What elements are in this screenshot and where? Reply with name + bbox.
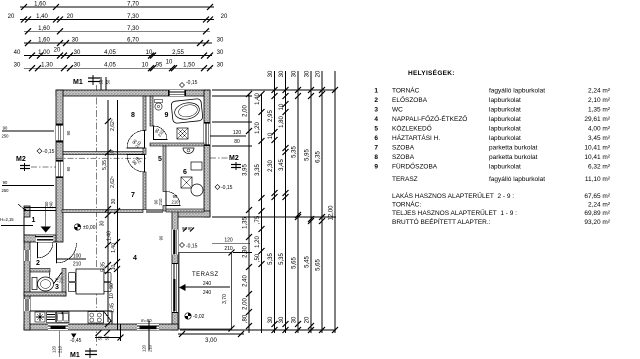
svg-text:lapburkolat: lapburkolat <box>489 126 521 133</box>
50 50 labels bottom <box>95 324 124 341</box>
svg-text:m=90: m=90 <box>141 318 152 323</box>
svg-text:LAKÁS HASZNOS ALAPTERŰLET 2 -: LAKÁS HASZNOS ALAPTERŰLET 2 - 9 : <box>392 191 514 200</box>
door room 9 <box>154 126 168 140</box>
svg-text:HELYISÉGEK:: HELYISÉGEK: <box>408 68 455 77</box>
svg-text:SZOBA: SZOBA <box>392 154 415 161</box>
level marker -0,02 <box>185 313 205 320</box>
front door leaf <box>38 242 54 258</box>
dim chain col 3 <box>268 70 278 333</box>
svg-text:6: 6 <box>183 169 187 176</box>
svg-text:5,95: 5,95 <box>305 149 311 161</box>
porch pillar <box>24 206 30 217</box>
svg-text:1,30: 1,30 <box>41 63 53 69</box>
sliding door 120/210 in right lower wall <box>159 226 195 255</box>
svg-text:7,70: 7,70 <box>127 2 139 8</box>
svg-text:7: 7 <box>131 192 135 199</box>
extension lines right <box>212 89 336 91</box>
entrance triangle porch <box>41 227 52 233</box>
terrace outline <box>179 253 232 330</box>
window left lower wall <box>24 299 30 311</box>
svg-text:10: 10 <box>109 293 115 299</box>
section marker M1 bottom <box>70 348 97 359</box>
kitchen stove <box>88 312 104 324</box>
svg-text:fagyálló lapburkolat: fagyálló lapburkolat <box>489 88 545 95</box>
svg-text:10: 10 <box>146 50 153 56</box>
svg-text:1: 1 <box>374 88 378 95</box>
label 100/240 above porch <box>44 201 54 209</box>
washer room 6 <box>181 177 192 188</box>
window top wall <box>168 90 186 96</box>
top dimension chain row 3 <box>24 26 210 35</box>
dim chain col 8 <box>329 71 339 333</box>
svg-text:20: 20 <box>54 48 61 54</box>
level marker -0,15 terrace <box>180 243 198 250</box>
svg-text:30: 30 <box>279 70 285 77</box>
window label 120/210 below kitchen window <box>52 331 63 357</box>
svg-text:M2: M2 <box>16 156 26 163</box>
svg-text:3,95: 3,95 <box>243 164 249 176</box>
level marker -0,15 top <box>180 80 198 88</box>
svg-text:BRUTTÓ BEÉPÍTETT ALAPTER.:: BRUTTÓ BEÉPÍTETT ALAPTER.: <box>392 217 491 226</box>
svg-text:120: 120 <box>224 238 233 244</box>
terrace bottom dim 3,00 <box>178 331 244 344</box>
svg-text:4: 4 <box>133 255 137 262</box>
level marker zero <box>74 224 95 231</box>
svg-text:30: 30 <box>100 221 106 227</box>
svg-text:7: 7 <box>374 145 378 152</box>
svg-text:3: 3 <box>55 284 59 291</box>
svg-text:7,30: 7,30 <box>127 14 139 20</box>
svg-text:HÁZTARTÁSI H.: HÁZTARTÁSI H. <box>392 133 440 142</box>
svg-text:120: 120 <box>233 130 242 136</box>
svg-text:67,65 m²: 67,65 m² <box>584 193 610 200</box>
wall room 9 left <box>150 96 153 126</box>
svg-text:10,41 m²: 10,41 m² <box>584 145 610 152</box>
level marker -0,15 right <box>215 185 233 192</box>
svg-text:20: 20 <box>67 14 74 20</box>
svg-text:2: 2 <box>36 260 40 267</box>
top dimension chain row 6 <box>14 60 224 71</box>
door room 6 <box>166 192 180 206</box>
svg-text:TELJES HASZNOS ALAPTERŰLET 1: TELJES HASZNOS ALAPTERŰLET 1 - 9 : <box>392 208 517 217</box>
svg-text:3,45 m²: 3,45 m² <box>588 135 611 142</box>
svg-text:2,00: 2,00 <box>243 298 249 310</box>
door eloszoba to room 4 <box>57 243 87 268</box>
svg-text:4,00 m²: 4,00 m² <box>588 126 611 133</box>
svg-text:10: 10 <box>111 265 117 271</box>
door WC <box>49 272 63 285</box>
svg-text:240: 240 <box>49 201 54 209</box>
svg-text:6: 6 <box>374 135 378 142</box>
svg-text:-0,45: -0,45 <box>70 338 82 344</box>
wall bottom <box>24 324 178 330</box>
dim chain col 5 <box>292 70 302 333</box>
window callout 90/250 upper <box>2 126 55 139</box>
svg-text:7,30: 7,30 <box>127 26 139 32</box>
porch edge lines <box>24 207 56 209</box>
svg-text:20: 20 <box>305 316 311 323</box>
svg-text:29,61 m²: 29,61 m² <box>584 116 610 123</box>
window left wall lower <box>56 160 63 178</box>
svg-text:,50: ,50 <box>255 253 261 262</box>
svg-text:6,35: 6,35 <box>316 151 322 163</box>
svg-text:1,40: 1,40 <box>255 93 261 105</box>
svg-text:210: 210 <box>172 200 180 205</box>
svg-text:90: 90 <box>3 126 8 131</box>
front door opening in entry wall <box>35 235 53 242</box>
svg-text:8: 8 <box>131 112 135 119</box>
door room 7 <box>127 155 145 173</box>
svg-text:10: 10 <box>142 63 149 69</box>
svg-text:1: 1 <box>32 217 36 224</box>
svg-text:9: 9 <box>374 164 378 171</box>
svg-text:30: 30 <box>74 63 81 69</box>
svg-text:1,00: 1,00 <box>38 50 50 56</box>
section line M1 (vertical dash-dot) <box>96 85 98 347</box>
wall WC top <box>30 269 50 273</box>
kitchen sink <box>57 312 70 323</box>
svg-text:90: 90 <box>109 283 115 289</box>
svg-text:5,45: 5,45 <box>305 256 311 268</box>
cabinet room 6 <box>191 162 202 170</box>
svg-text:3,70: 3,70 <box>222 294 228 304</box>
wall between room 8 and 7 <box>63 152 143 155</box>
svg-text:1,50: 1,50 <box>183 63 195 69</box>
svg-text:30: 30 <box>74 50 81 56</box>
svg-text:FÜRDŐSZOBA: FÜRDŐSZOBA <box>392 162 438 171</box>
wall left upper <box>56 90 63 242</box>
svg-text:11,10 m²: 11,10 m² <box>585 176 611 183</box>
svg-text:TERASZ: TERASZ <box>192 272 219 278</box>
window left wall upper <box>56 124 63 142</box>
svg-text:M1: M1 <box>70 352 80 359</box>
wall rooms 8/7 vs corridor <box>143 96 146 131</box>
svg-text:20: 20 <box>221 14 228 20</box>
svg-text:95: 95 <box>156 63 163 69</box>
svg-text:50: 50 <box>106 79 111 84</box>
svg-text:5,35: 5,35 <box>101 262 107 272</box>
terrace dim 3,70 <box>222 250 235 332</box>
svg-text:90: 90 <box>66 166 71 171</box>
svg-text:30: 30 <box>268 70 274 77</box>
svg-text:9: 9 <box>165 112 169 119</box>
washing machine room 9 <box>177 128 188 139</box>
window right wall <box>204 122 210 146</box>
svg-text:1,80: 1,80 <box>279 116 285 128</box>
svg-text:1,60: 1,60 <box>38 26 50 32</box>
svg-text:30: 30 <box>14 63 21 69</box>
corridor threshold to room 4 <box>146 209 163 211</box>
svg-text:30: 30 <box>217 63 224 69</box>
svg-text:250: 250 <box>2 188 10 193</box>
svg-text:1,35 m²: 1,35 m² <box>588 107 611 114</box>
svg-text:4: 4 <box>374 116 378 123</box>
dim chain col 4 <box>279 70 289 333</box>
wall right lower <box>172 211 178 330</box>
svg-text:5: 5 <box>158 156 162 163</box>
svg-text:2,00: 2,00 <box>243 105 249 117</box>
svg-text:±0,00: ±0,00 <box>83 225 96 231</box>
svg-text:69,89 m²: 69,89 m² <box>584 210 610 217</box>
svg-text:2: 2 <box>374 97 378 104</box>
svg-text:WC: WC <box>392 107 403 114</box>
svg-text:30: 30 <box>72 38 79 44</box>
terrace door dim 240/240 <box>185 281 230 296</box>
svg-text:80: 80 <box>234 139 240 145</box>
svg-text:5,35: 5,35 <box>102 160 108 170</box>
wall left lower <box>24 235 30 330</box>
bathtub room 9 <box>171 98 203 123</box>
svg-text:6,70: 6,70 <box>127 38 139 44</box>
svg-text:5,65: 5,65 <box>292 257 298 269</box>
svg-text:2,62⁵: 2,62⁵ <box>110 176 116 188</box>
svg-text:30: 30 <box>305 70 311 77</box>
svg-text:50: 50 <box>98 335 103 340</box>
svg-text:210: 210 <box>59 276 64 284</box>
section marker M2 right <box>210 155 241 170</box>
svg-text:50: 50 <box>99 79 104 84</box>
dim chain col 2 <box>255 91 265 333</box>
-0,45 level marker <box>71 334 77 339</box>
svg-text:3,35: 3,35 <box>255 164 261 176</box>
svg-text:5: 5 <box>374 126 378 133</box>
svg-text:lapburkolat: lapburkolat <box>489 116 521 123</box>
svg-text:250: 250 <box>2 134 10 139</box>
svg-text:210: 210 <box>224 246 233 252</box>
door room 8 <box>127 131 145 149</box>
svg-text:1,40: 1,40 <box>107 231 113 241</box>
svg-text:30: 30 <box>292 316 298 323</box>
svg-text:,75: ,75 <box>255 215 261 224</box>
svg-text:-0,15: -0,15 <box>186 244 198 250</box>
svg-text:6,32 m²: 6,32 m² <box>588 164 611 171</box>
svg-text:lapburkolat: lapburkolat <box>489 107 521 114</box>
svg-text:NAPPALI-FŐZŐ-ÉTKEZŐ: NAPPALI-FŐZŐ-ÉTKEZŐ <box>392 114 467 123</box>
svg-text:1,45: 1,45 <box>110 303 116 313</box>
section marker M1 top <box>73 75 100 86</box>
svg-text:lapburkolat: lapburkolat <box>489 164 521 171</box>
svg-text:90: 90 <box>159 235 164 240</box>
window callout 90/250 lower <box>2 180 55 193</box>
svg-text:2,55: 2,55 <box>172 50 184 56</box>
svg-text:10: 10 <box>166 60 173 66</box>
top dimension chain row 5 <box>14 48 224 59</box>
window callout 120/80 right <box>210 130 246 145</box>
wall right upper <box>204 90 210 217</box>
sink room 6 <box>183 148 194 154</box>
dim chain col 1 <box>243 91 253 333</box>
top dimension chain row 2 <box>8 14 228 23</box>
svg-text:20: 20 <box>316 70 322 77</box>
svg-text:120: 120 <box>142 344 147 352</box>
svg-text:2,30: 2,30 <box>243 246 249 258</box>
window bottom wall room 4 <box>137 318 159 352</box>
svg-text:210: 210 <box>158 198 163 206</box>
svg-text:5,35: 5,35 <box>292 146 298 158</box>
svg-text:10: 10 <box>110 150 116 156</box>
wall WC right <box>62 269 66 297</box>
svg-text:240: 240 <box>203 281 212 287</box>
window callout 120/210 right step <box>212 238 250 253</box>
kitchen star symbol <box>35 312 45 322</box>
svg-text:1,20: 1,20 <box>255 236 261 248</box>
chairs <box>68 273 75 282</box>
svg-text:8: 8 <box>374 154 378 161</box>
wall room 9 bottom <box>150 143 204 146</box>
svg-text:fagyálló lapburkolat: fagyálló lapburkolat <box>489 176 545 183</box>
svg-text:1,60: 1,60 <box>34 2 46 8</box>
kitchen dishwasher <box>47 312 56 323</box>
svg-text:SZOBA: SZOBA <box>392 145 415 152</box>
svg-text:4,05: 4,05 <box>104 63 116 69</box>
level marker -0,15 left <box>37 149 55 156</box>
dim chain col 6 <box>305 70 315 333</box>
svg-text:M1: M1 <box>73 79 83 86</box>
svg-text:120: 120 <box>52 345 57 353</box>
svg-text:2,24 m²: 2,24 m² <box>588 202 611 209</box>
svg-text:50: 50 <box>105 335 110 340</box>
svg-text:2,30: 2,30 <box>268 160 274 172</box>
50/50 labels above top wall <box>99 77 111 96</box>
svg-text:30: 30 <box>292 70 298 77</box>
svg-text:210: 210 <box>58 345 63 353</box>
WC room 3 <box>32 277 54 291</box>
window bottom wall kitchen <box>48 324 68 330</box>
window room 2 left wall <box>24 250 30 261</box>
wall WC block bottom <box>24 292 66 296</box>
svg-text:10,41 m²: 10,41 m² <box>584 154 610 161</box>
sink room 9 top <box>155 100 163 111</box>
wall room 7 bottom <box>62 210 143 213</box>
svg-text:ELŐSZOBA: ELŐSZOBA <box>392 95 428 104</box>
svg-text:3,45: 3,45 <box>279 159 285 171</box>
svg-text:1,40: 1,40 <box>111 243 117 253</box>
svg-text:lapburkolat: lapburkolat <box>489 97 521 104</box>
kitchen counter slanted end <box>104 311 113 322</box>
svg-text:-0,15: -0,15 <box>221 185 233 191</box>
svg-text:30: 30 <box>111 199 117 205</box>
svg-text:2,10 m²: 2,10 m² <box>588 97 611 104</box>
svg-text:100: 100 <box>73 254 82 260</box>
svg-text:5,35: 5,35 <box>268 253 274 265</box>
svg-text:10: 10 <box>268 132 274 139</box>
svg-text:2,24 m²: 2,24 m² <box>588 88 611 95</box>
svg-text:-0,15: -0,15 <box>43 149 55 155</box>
wall step <box>178 211 210 217</box>
svg-text:parketta burkolat: parketta burkolat <box>489 154 538 161</box>
svg-text:30: 30 <box>268 316 274 323</box>
svg-text:30: 30 <box>217 50 224 56</box>
svg-text:3,00: 3,00 <box>205 338 217 344</box>
dim chain col 7 <box>316 70 326 333</box>
svg-text:12,00: 12,00 <box>329 205 335 221</box>
wall top <box>56 90 210 96</box>
svg-text:90: 90 <box>66 130 71 135</box>
svg-text:3: 3 <box>374 107 378 114</box>
svg-text:30: 30 <box>217 38 224 44</box>
svg-text:30: 30 <box>279 316 285 323</box>
section marker M2 left <box>16 156 146 171</box>
svg-text:90: 90 <box>3 180 8 185</box>
svg-text:2,95: 2,95 <box>268 110 274 122</box>
svg-text:1,35: 1,35 <box>243 217 249 229</box>
boiler room 6 <box>191 184 203 196</box>
svg-text:-0,02: -0,02 <box>193 314 205 320</box>
svg-text:20: 20 <box>8 14 15 20</box>
svg-text:TORNÁC: TORNÁC <box>392 86 420 95</box>
svg-text:KÖZLEKEDŐ: KÖZLEKEDŐ <box>392 124 432 133</box>
svg-text:1,40: 1,40 <box>36 14 48 20</box>
svg-text:,80: ,80 <box>243 314 249 323</box>
svg-text:1,20: 1,20 <box>255 122 261 134</box>
svg-text:lapburkolat: lapburkolat <box>489 135 521 142</box>
svg-text:1,60: 1,60 <box>38 38 50 44</box>
entry wall porch/eloszoba <box>24 235 56 242</box>
svg-text:40: 40 <box>14 50 21 56</box>
svg-text:90: 90 <box>173 194 178 199</box>
svg-text:5,65: 5,65 <box>316 259 322 271</box>
svg-text:TORNÁC:: TORNÁC: <box>392 200 421 209</box>
dining table <box>76 269 104 294</box>
svg-text:2,40: 2,40 <box>243 275 249 287</box>
top dimension chain row 4 <box>24 38 224 47</box>
svg-text:10: 10 <box>279 103 285 110</box>
svg-text:M2: M2 <box>229 155 239 162</box>
svg-text:TERASZ: TERASZ <box>392 176 418 183</box>
top dimension chain row 1 <box>20 2 214 11</box>
svg-text:2,62⁵: 2,62⁵ <box>110 119 116 131</box>
kitchen counter <box>30 311 112 324</box>
svg-text:parketta burkolat: parketta burkolat <box>489 145 538 152</box>
svg-text:-0,15: -0,15 <box>186 80 198 86</box>
svg-text:93,20 m²: 93,20 m² <box>584 219 610 226</box>
terrace glazed door opening in right lower wall <box>172 264 178 313</box>
svg-text:5,35: 5,35 <box>279 253 285 265</box>
wall room 6 left <box>163 146 166 192</box>
terrace door triangle marker <box>179 284 186 291</box>
svg-text:210: 210 <box>148 344 153 352</box>
svg-text:4,05: 4,05 <box>104 50 116 56</box>
svg-text:210: 210 <box>73 262 82 268</box>
svg-text:H=2,15: H=2,15 <box>0 217 14 222</box>
svg-text:240: 240 <box>203 290 212 296</box>
